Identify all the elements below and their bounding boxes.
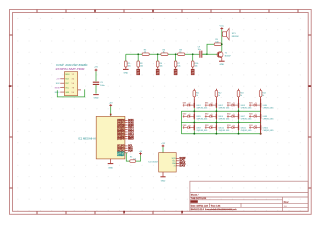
capacitor C5 labels: [100, 82, 104, 87]
wire matrix left vertical: [180, 111, 182, 133]
svg-text:LED5: LED5: [197, 116, 201, 118]
frame tick marks left: [10, 35, 13, 188]
capacitor C9: [198, 46, 202, 57]
IC1 name label: [78, 138, 96, 141]
svg-text:2X3PIN-SMT-HDR: 2X3PIN-SMT-HDR: [56, 68, 85, 71]
frame tick marks top: [37, 10, 298, 13]
svg-text:(RXD)PD0: (RXD)PD0: [117, 138, 125, 141]
svg-text:GND: GND: [108, 167, 113, 169]
LED D11 row 3 col 3: [227, 125, 252, 132]
power +5V symbol above IC2: [161, 143, 165, 147]
connector JP1 left pin stubs: [60, 79, 64, 92]
svg-text:LED4: LED4: [263, 105, 267, 107]
title block horizontal dividers: [190, 193, 308, 208]
svg-text:LED7: LED7: [241, 116, 245, 118]
svg-text:RW3: RW3: [227, 125, 231, 127]
svg-text:EAGLE 5.11.0 /home/adafruit/d: EAGLE 5.11.0 /home/adafruit/dotklok/dotk…: [191, 208, 238, 211]
wire column 1 vertical: [193, 99, 195, 134]
svg-text:LED11: LED11: [241, 127, 246, 129]
IC2 right pin stubs: [176, 158, 179, 166]
svg-text:SQW: SQW: [128, 149, 133, 152]
svg-text:LED3: LED3: [241, 105, 245, 107]
svg-text:AREF: AREF: [117, 154, 125, 157]
junction dots on ladder: [137, 53, 207, 55]
wire +5V to IC2: [162, 147, 164, 153]
resistor R7 vertical: [174, 61, 180, 69]
svg-text:BC847: BC847: [225, 55, 231, 57]
RTC IC2 body: [159, 153, 177, 172]
wire ground loop under JP1: [57, 89, 84, 97]
svg-text:10k: 10k: [160, 65, 163, 67]
svg-text:RW1: RW1: [183, 103, 187, 105]
svg-text:1k: 1k: [218, 95, 220, 97]
svg-text:CHIPLED_0805: CHIPLED_0805: [219, 130, 230, 132]
svg-text:GND: GND: [161, 180, 166, 182]
speaker SP1: [222, 28, 229, 40]
svg-text:CHIPLED_0805: CHIPLED_0805: [241, 108, 252, 110]
capacitor C4 polarized under R10: [191, 69, 195, 75]
svg-text:10k: 10k: [133, 158, 136, 160]
svg-text:Sheet: /: Sheet: /: [191, 193, 199, 196]
svg-text:RW2: RW2: [183, 114, 187, 116]
LED D6 row 2 col 2: [205, 114, 230, 121]
svg-text:CHIPLED_0805: CHIPLED_0805: [197, 108, 208, 110]
wire row 3 horizontal: [181, 133, 260, 135]
ground symbol under IC2: [160, 177, 165, 183]
IC1 net labels bottom group: [128, 145, 133, 153]
wire base to transistor: [202, 53, 218, 55]
resistor R5: [130, 156, 136, 162]
frame tick marks right: [308, 35, 311, 188]
svg-text:GND: GND: [123, 73, 128, 75]
transistor T1: [217, 52, 223, 58]
svg-text:RW1: RW1: [227, 103, 231, 105]
power +5V symbol at R5: [139, 151, 143, 155]
svg-text:VCC: VCC: [219, 26, 224, 28]
svg-text:CHIPLED_0805: CHIPLED_0805: [263, 108, 274, 110]
LED D10 row 3 col 2: [205, 125, 230, 132]
svg-text:CHIPLED_0805: CHIPLED_0805: [263, 119, 274, 121]
svg-text:GND: GND: [94, 98, 99, 100]
wire +5V to C5: [95, 71, 97, 81]
connector JP1 pin numbers inside: [72, 74, 74, 94]
connector JP1 value label: [56, 68, 85, 71]
power +5V symbol above IC1: [109, 103, 113, 107]
wire row 2 horizontal: [181, 122, 260, 124]
wire RC ladder main: [126, 44, 214, 54]
svg-text:IC1 MEGA8-AI: IC1 MEGA8-AI: [78, 138, 96, 141]
svg-text:RW2: RW2: [249, 114, 253, 116]
svg-text:ICSP AVR-ISP-6SMD: ICSP AVR-ISP-6SMD: [56, 64, 87, 67]
IC1 bottom pin stub: [110, 159, 112, 163]
svg-text:Date: 1/07/11 1:23: Date: 1/07/11 1:23: [191, 204, 209, 207]
svg-text:RST: RST: [65, 83, 68, 85]
LED D1 row 1 col 1: [183, 103, 208, 110]
svg-text:10k: 10k: [177, 65, 180, 67]
svg-text:CHIPLED_0805: CHIPLED_0805: [197, 119, 208, 121]
svg-text:+5V: +5V: [94, 67, 98, 69]
resistor R10 vertical: [191, 61, 198, 69]
IC2 pin names inside: [172, 158, 177, 168]
svg-text:CHIPLED_0805: CHIPLED_0805: [263, 130, 274, 132]
microcontroller IC1 body: [96, 116, 125, 158]
resistor R11 column 1: [193, 89, 199, 99]
svg-text:RW2: RW2: [227, 114, 231, 116]
wire speaker branch vertical: [221, 30, 223, 52]
title block outline: [190, 181, 308, 211]
power VCC symbol above speaker: [219, 26, 224, 30]
LED D12 row 3 col 4: [249, 125, 274, 132]
junction dots matrix: [193, 110, 239, 134]
IC1 net labels top group: [128, 119, 134, 140]
LED D2 row 1 col 2: [205, 103, 230, 110]
resistor R14 column 4: [259, 89, 265, 99]
resistor R13 column 3: [237, 89, 243, 99]
wire pullup R5: [126, 153, 140, 161]
svg-text:10u: 10u: [198, 49, 201, 51]
wire ladder column drops: [126, 54, 193, 61]
svg-text:100: 100: [215, 41, 218, 43]
svg-text:RW3: RW3: [205, 125, 209, 127]
svg-text:X1: X1: [174, 166, 176, 168]
svg-text:10k: 10k: [195, 65, 198, 67]
svg-text:RW1: RW1: [205, 103, 209, 105]
svg-text:CHIPLED_0805: CHIPLED_0805: [197, 130, 208, 132]
IC2 bottom pin stub: [162, 172, 164, 176]
svg-text:3 4: 3 4: [72, 79, 74, 81]
power +5V symbol above C5: [94, 67, 98, 72]
svg-text:100n: 100n: [100, 85, 104, 87]
wire +5V to IC1: [110, 106, 112, 116]
svg-text:RW2: RW2: [205, 114, 209, 116]
resistor R9: [214, 39, 221, 46]
wire column 2 vertical: [215, 99, 217, 134]
svg-text:1k: 1k: [262, 95, 264, 97]
resistor R4 vertical: [156, 61, 162, 69]
title block text sheet row: [191, 193, 199, 196]
svg-text:Time: 1:04: Time: 1:04: [211, 205, 222, 207]
svg-text:RW3: RW3: [249, 125, 253, 127]
svg-text:CHIPLED_0805: CHIPLED_0805: [241, 130, 252, 132]
svg-text:LED10: LED10: [219, 127, 224, 129]
svg-text:R5: R5: [130, 156, 132, 158]
title block text document row: [191, 198, 207, 200]
svg-text:10k: 10k: [140, 65, 143, 67]
svg-text:CHIPLED_0805: CHIPLED_0805: [241, 119, 252, 121]
svg-text:LED9: LED9: [197, 127, 201, 129]
connector JP1 name label: [56, 64, 87, 67]
svg-text:1 2: 1 2: [72, 74, 74, 76]
svg-text:RW3: RW3: [183, 125, 187, 127]
svg-text:MISO: MISO: [128, 138, 134, 141]
wire emitter to ground: [221, 58, 223, 61]
svg-text:LED2: LED2: [219, 105, 223, 107]
svg-text:IC2 DS1307: IC2 DS1307: [148, 161, 158, 163]
svg-text:1k: 1k: [179, 52, 181, 54]
svg-text:LED1: LED1: [197, 105, 201, 107]
resistor R6 horizontal: [161, 50, 168, 56]
svg-text:10k: 10k: [128, 65, 131, 67]
frame tick marks bottom: [37, 211, 182, 214]
resistor R12 column 2: [215, 89, 221, 99]
frame dark tick squares: [9, 10, 311, 213]
svg-text:9 0: 9 0: [72, 92, 74, 94]
LED D7 row 2 col 3: [227, 114, 252, 121]
svg-text:RW1: RW1: [249, 103, 253, 105]
svg-text:BAT: BAT: [179, 165, 186, 168]
svg-text:1k: 1k: [240, 95, 242, 97]
IC2 net labels: [179, 157, 186, 168]
LED D3 row 1 col 3: [227, 103, 252, 110]
svg-text:GND: GND: [219, 64, 224, 66]
svg-text:1k: 1k: [144, 52, 146, 54]
ground symbol under C5: [93, 95, 99, 100]
wire row 1 horizontal: [181, 110, 260, 112]
transistor T1 labels: [225, 53, 231, 58]
resistor R8 horizontal: [178, 50, 185, 56]
connector JP1 right pin stub: [78, 89, 81, 91]
ground symbol under T1: [219, 61, 225, 66]
svg-text:1k: 1k: [196, 95, 198, 97]
capacitor C3 polarized under R7: [174, 69, 178, 75]
svg-text:THE DOTKLOK: THE DOTKLOK: [191, 198, 207, 200]
svg-text:7 8: 7 8: [72, 88, 74, 90]
LED D8 row 2 col 4: [249, 114, 274, 121]
svg-text:CHIPLED_0805: CHIPLED_0805: [219, 119, 230, 121]
capacitor C2 polarized under R4: [156, 69, 160, 75]
svg-text:Rev:: Rev:: [284, 200, 290, 204]
resistor R2 vertical: [137, 61, 143, 69]
title block rev cell: [284, 200, 290, 208]
connector JP1 body: [64, 72, 77, 96]
svg-text:T1: T1: [225, 53, 227, 55]
resistor R1 vertical: [125, 61, 131, 69]
connector JP1 pin names inside: [65, 74, 70, 94]
title block eagle row: [191, 208, 238, 211]
svg-text:5 6: 5 6: [72, 83, 74, 85]
svg-text:LED12: LED12: [263, 127, 268, 129]
LED D4 row 1 col 4: [249, 103, 274, 110]
frame inner border: [13, 13, 309, 212]
ground symbol under R1: [123, 69, 129, 74]
IC1 right pin stubs top group: [125, 120, 128, 138]
LED D9 row 3 col 1: [183, 125, 208, 132]
resistor R3 horizontal: [142, 50, 149, 56]
wire column 3 vertical: [238, 99, 240, 134]
svg-text:1k: 1k: [163, 52, 165, 54]
svg-text:8R05W: 8R05W: [232, 36, 239, 38]
capacitor C1 polarized under R2: [136, 69, 140, 75]
IC1 pin names inside top group: [117, 119, 125, 140]
wire column 4 vertical: [260, 99, 262, 135]
ground symbol under IC1: [108, 164, 114, 170]
svg-text:MOSI: MOSI: [55, 88, 60, 90]
IC2 name label: [148, 161, 158, 163]
capacitor C5: [93, 82, 99, 84]
title block filled label: [190, 200, 197, 203]
IC1 right pin stubs bottom group: [125, 146, 128, 153]
connector JP1 left pin labels: [55, 79, 61, 94]
IC1 pin names inside bottom group: [117, 145, 125, 157]
LED D5 row 2 col 1: [183, 114, 208, 121]
title block date row: [191, 204, 221, 207]
svg-text:LED8: LED8: [263, 116, 267, 118]
svg-text:MISO: MISO: [65, 74, 70, 76]
title block vertical dividers: [209, 197, 282, 211]
IC1 top pin junction: [110, 114, 112, 116]
junction R9 to speaker wire: [221, 43, 223, 45]
speaker SP1 labels: [232, 33, 239, 38]
svg-text:CHIPLED_0805: CHIPLED_0805: [219, 108, 230, 110]
svg-text:LED6: LED6: [219, 116, 223, 118]
wire C5 to ground: [95, 85, 97, 94]
